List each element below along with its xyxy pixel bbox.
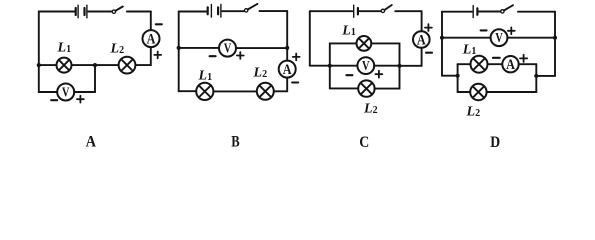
wire: circuit B voltmeter wire left bbox=[179, 47, 219, 49]
voltmeter V4 plus terminal label bbox=[508, 27, 515, 34]
svg-text:B: B bbox=[231, 133, 240, 150]
switch S (circuit D, open) bbox=[501, 5, 513, 13]
switch S (circuit A, open) bbox=[112, 7, 123, 14]
wire: circuit A between L1 and L2 bbox=[72, 64, 119, 66]
wire: circuit B switch to top-right corner bbox=[260, 10, 288, 12]
lamp L1 (circuit D) bbox=[471, 56, 488, 73]
wire: circuit A ammeter to middle wire corner bbox=[136, 47, 151, 65]
voltmeter V2 (circuit B) bbox=[219, 40, 236, 57]
ammeter A1 minus terminal label bbox=[156, 23, 162, 25]
voltmeter V4 minus terminal label bbox=[481, 29, 487, 31]
ammeter A1 (circuit A) bbox=[143, 30, 160, 48]
svg-text:L1: L1 bbox=[198, 69, 213, 84]
wire: circuit C right vertical upper bbox=[421, 11, 423, 31]
lamp L1 (circuit B) bbox=[196, 83, 213, 100]
wire: circuit B between L1 and L2 bbox=[213, 90, 256, 92]
svg-text:D: D bbox=[490, 134, 500, 151]
wire: circuit A switch to top-right corner bbox=[127, 11, 151, 13]
svg-text:V: V bbox=[62, 85, 70, 100]
wire: circuit B bottom-left segment bbox=[179, 90, 197, 92]
svg-text:V: V bbox=[224, 42, 232, 57]
wire: circuit A top-left segment bbox=[39, 11, 75, 13]
lamp L2 (circuit B) bbox=[257, 83, 274, 100]
svg-text:L1: L1 bbox=[341, 24, 356, 39]
battery (circuit D, one cell) bbox=[473, 6, 477, 18]
node: circuit D right bus junction bbox=[534, 74, 538, 78]
wire: circuit A battery to switch bbox=[88, 11, 111, 13]
ammeter A4 minus terminal label bbox=[493, 57, 500, 59]
wire: circuit B bottom-right segment bbox=[274, 90, 287, 92]
svg-text:L2: L2 bbox=[363, 101, 378, 116]
wire: circuit D voltmeter wire left bbox=[442, 37, 491, 39]
svg-text:A: A bbox=[506, 57, 515, 73]
voltmeter V4 (circuit D) bbox=[491, 29, 508, 46]
node: circuit A junction between L1 and L2 bbox=[93, 63, 97, 67]
wire: circuit C left vertical bbox=[309, 11, 311, 65]
wire: circuit C L2 branch left drop bbox=[330, 66, 358, 89]
node: circuit B voltmeter wire right junction bbox=[285, 46, 289, 50]
ammeter A2 plus terminal label bbox=[293, 54, 300, 61]
voltmeter V1 minus terminal label bbox=[51, 99, 57, 101]
voltmeter V3 plus terminal label bbox=[376, 71, 383, 78]
wire: circuit A right vertical upper bbox=[150, 12, 152, 31]
node: circuit D voltmeter wire right junction bbox=[553, 36, 557, 40]
ammeter A4 plus terminal label bbox=[520, 55, 527, 62]
switch S (circuit B, open) bbox=[245, 4, 258, 12]
svg-text:A: A bbox=[86, 134, 97, 151]
svg-text:A: A bbox=[417, 33, 426, 49]
svg-text:L1: L1 bbox=[462, 43, 477, 58]
switch S (circuit C, open) bbox=[381, 5, 392, 13]
node: circuit B voltmeter wire left junction bbox=[177, 46, 181, 50]
node: circuit C left bus junction bbox=[328, 64, 332, 68]
wire: circuit C L1 branch right riser bbox=[371, 43, 399, 65]
lamp L1 (circuit A) bbox=[57, 58, 72, 73]
node: circuit D left bus junction bbox=[456, 74, 460, 78]
voltmeter V2 minus terminal label bbox=[210, 55, 216, 57]
svg-text:A: A bbox=[147, 32, 156, 48]
wire: circuit A voltmeter branch right vertical bbox=[94, 65, 96, 92]
wire: circuit A voltmeter branch bottom-right bbox=[74, 91, 95, 93]
wire: circuit D ammeter to right bus bbox=[519, 63, 537, 65]
node: circuit C right bus junction bbox=[397, 64, 401, 68]
svg-text:L1: L1 bbox=[57, 40, 72, 55]
voltmeter V3 minus terminal label bbox=[346, 74, 352, 76]
wire: circuit D right bus vertical bbox=[535, 64, 537, 92]
wire: circuit C top-left segment bbox=[310, 10, 352, 12]
wire: circuit D L2 branch right segment bbox=[487, 91, 537, 93]
wire: circuit D voltmeter wire right bbox=[507, 37, 555, 39]
wire: circuit D switch to top-right corner bbox=[518, 11, 555, 13]
wire: circuit C switch to top-right corner bbox=[395, 10, 421, 12]
svg-text:A: A bbox=[283, 62, 292, 78]
wire: circuit B battery to switch bbox=[222, 10, 244, 12]
battery (circuit B, two cells) bbox=[208, 5, 221, 18]
wire: circuit B voltmeter wire right bbox=[236, 47, 287, 49]
ammeter A2 (circuit B) bbox=[279, 61, 296, 79]
ammeter A3 plus terminal label bbox=[425, 24, 432, 31]
lamp L1 (circuit C) bbox=[357, 36, 372, 51]
svg-text:L2: L2 bbox=[253, 65, 268, 80]
node: circuit D voltmeter wire left junction bbox=[440, 36, 444, 40]
wire: circuit D top-left segment bbox=[442, 11, 472, 13]
wire: circuit D right stub to outer loop bbox=[536, 75, 555, 77]
svg-text:V: V bbox=[495, 31, 503, 46]
wire: circuit A left vertical bbox=[38, 12, 40, 93]
ammeter A1 plus terminal label bbox=[154, 52, 161, 59]
wire: circuit A voltmeter branch bottom-left bbox=[39, 91, 57, 93]
wire: circuit D L2 branch left segment bbox=[458, 91, 471, 93]
wire: circuit C ammeter down to middle wire jog bbox=[400, 48, 422, 66]
ammeter A2 minus terminal label bbox=[292, 81, 298, 83]
wire: circuit B left vertical bbox=[178, 12, 180, 92]
wire: circuit C L1 branch left riser bbox=[330, 43, 357, 65]
voltmeter V1 (circuit A) bbox=[57, 84, 74, 101]
battery (circuit A, two cells) bbox=[76, 5, 87, 18]
wire: circuit B ammeter to bottom wire bbox=[286, 78, 288, 92]
lamp L2 (circuit D) bbox=[470, 84, 486, 100]
voltmeter V1 plus terminal label bbox=[77, 96, 84, 103]
lamp L2 (circuit A) bbox=[119, 57, 136, 74]
wire: circuit B top-left segment bbox=[179, 11, 207, 13]
voltmeter V3 (circuit C) bbox=[357, 57, 374, 74]
ammeter A4 (circuit D) bbox=[502, 56, 518, 73]
svg-text:V: V bbox=[362, 59, 370, 74]
wire: circuit A middle-left segment bbox=[39, 64, 57, 66]
wire: circuit C battery to switch bbox=[359, 10, 381, 12]
svg-text:L2: L2 bbox=[466, 105, 481, 120]
svg-text:L2: L2 bbox=[110, 41, 125, 56]
ammeter A3 minus terminal label bbox=[426, 52, 432, 54]
wire: circuit C middle wire right of voltmeter bbox=[374, 65, 399, 67]
wire: circuit D right vertical bbox=[554, 12, 556, 76]
wire: circuit D battery to switch bbox=[479, 11, 501, 13]
wire: circuit B right vertical upper bbox=[286, 11, 288, 61]
wire: circuit D between L1 and ammeter bbox=[488, 63, 503, 65]
wire: circuit D L1 branch left segment bbox=[458, 63, 471, 65]
wire: circuit C middle wire left of voltmeter bbox=[310, 65, 358, 67]
wire: circuit D bottom-left stub bbox=[442, 75, 458, 77]
svg-text:C: C bbox=[359, 134, 369, 151]
voltmeter V2 plus terminal label bbox=[237, 52, 244, 59]
wire: circuit D left bus vertical bbox=[457, 64, 459, 92]
node: circuit A left junction bbox=[37, 63, 41, 67]
lamp L2 (circuit C) bbox=[358, 80, 374, 96]
ammeter A3 (circuit C) bbox=[413, 31, 430, 48]
wire: circuit C L2 branch right drop bbox=[375, 66, 400, 89]
wire: circuit D left vertical bbox=[441, 12, 443, 76]
battery (circuit C, one cell) bbox=[354, 5, 358, 17]
